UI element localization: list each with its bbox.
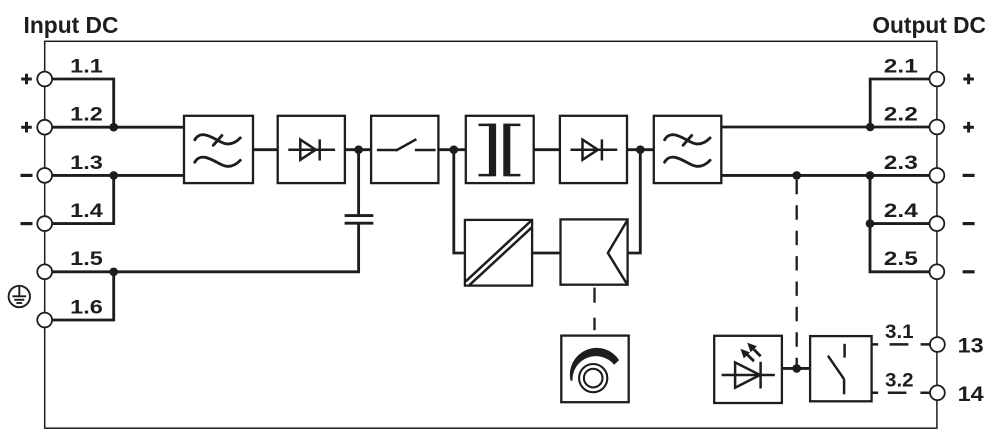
input filter symbol waves <box>195 135 241 167</box>
svg-text:1.1: 1.1 <box>70 55 103 77</box>
terminal 14 <box>930 385 945 400</box>
svg-text:3.1: 3.1 <box>885 321 914 343</box>
wire to terminal 2.4 <box>870 222 930 225</box>
feedback chevron symbol <box>608 221 627 284</box>
transformer winding symbol <box>479 124 521 177</box>
terminal 1.3 <box>37 168 52 183</box>
input filter block U1 <box>184 116 253 183</box>
dashed link relay to terminal 13 <box>872 343 930 346</box>
wire terminal 1.1 down to 1.2 net <box>51 79 114 127</box>
wire terminal 1.4 up to 1.3 net <box>51 175 114 223</box>
terminal 2.4 <box>930 216 945 231</box>
svg-text:3.2: 3.2 <box>885 370 914 392</box>
wire node B down to control block <box>454 150 465 253</box>
dashed link relay to terminal 14 <box>872 392 930 395</box>
wire output filter to terminal 2.3 <box>721 174 930 177</box>
wire rectifier to switch <box>345 148 371 151</box>
junction dot capacitor tap <box>354 145 363 154</box>
junction dot 2.3/2.4 <box>866 171 875 180</box>
svg-text:1.4: 1.4 <box>70 200 103 222</box>
svg-text:2.4: 2.4 <box>884 200 918 222</box>
switch block U3 <box>371 116 438 183</box>
wire control block to feedback block <box>532 252 560 255</box>
potentiometer knob symbol <box>570 348 619 392</box>
LED diode symbol <box>722 362 775 389</box>
polarity sign minus 2.4 <box>963 222 975 225</box>
polarity sign plus 2.2 <box>963 122 974 133</box>
svg-text:13: 13 <box>958 335 984 358</box>
LED indicator block D1 <box>714 336 782 403</box>
svg-text:1.5: 1.5 <box>70 248 103 270</box>
terminal 2.1 <box>930 72 945 87</box>
wire LED block to relay block <box>782 367 810 370</box>
junction dot 2.1/2.2 <box>866 123 875 132</box>
polarity sign plus 2.1 <box>963 74 974 85</box>
terminal 1.4 <box>37 216 52 231</box>
wire input filter to rectifier <box>253 148 278 151</box>
wire output filter to terminal 2.2 <box>721 126 930 129</box>
svg-text:2.2: 2.2 <box>884 104 918 126</box>
junction dot 1.1/1.2 <box>109 123 118 132</box>
wire 1.3 to input filter <box>51 174 184 177</box>
svg-text:1.3: 1.3 <box>70 152 103 174</box>
polarity sign minus 1.3 <box>21 174 33 177</box>
terminal 13 <box>930 337 945 352</box>
switch symbol <box>377 139 436 150</box>
svg-text:14: 14 <box>958 383 984 406</box>
potentiometer block R1 <box>561 336 628 403</box>
svg-text:1.6: 1.6 <box>70 296 103 318</box>
terminal 1.1 <box>37 72 52 87</box>
junction dot 1.5/1.6 <box>109 268 118 277</box>
terminal 2.5 <box>930 264 945 279</box>
wire terminal 1.6 up to 1.5 net <box>51 272 114 320</box>
wire 2.4/2.5 branch <box>870 175 930 271</box>
wire terminal 2.1 down to 2.2 net <box>870 79 930 127</box>
control block stripe symbol <box>466 221 532 285</box>
junction dot 1.3/1.4 <box>109 171 118 180</box>
svg-text:2.1: 2.1 <box>884 55 918 77</box>
feedback block U8 <box>561 219 628 284</box>
rectifier diode symbol <box>288 139 335 160</box>
polarity sign minus 2.3 <box>963 174 975 177</box>
LED light arrows <box>740 343 760 362</box>
svg-text:2.3: 2.3 <box>884 152 918 174</box>
output diode symbol <box>571 139 618 160</box>
wire transformer to output diode <box>534 148 560 151</box>
dashed stub feedback block to potentiometer <box>593 288 595 331</box>
wire 1.5 return rail to capacitor <box>51 224 359 271</box>
wire capacitor upper lead <box>357 150 360 215</box>
polarity sign plus 1.1 <box>21 74 32 85</box>
output filter symbol waves <box>665 135 711 167</box>
polarity sign plus 1.2 <box>21 122 32 133</box>
rectifier block U2 <box>278 116 345 183</box>
capacitor C1 plates <box>345 216 374 224</box>
wire switch to transformer <box>438 148 465 151</box>
terminal 1.5 <box>37 264 52 279</box>
device outline border <box>45 41 937 428</box>
junction dot node B <box>450 145 459 154</box>
dashed signal line down to relay circuit <box>796 180 798 369</box>
ground / protective earth symbol <box>9 286 30 307</box>
terminal 1.6 <box>37 313 52 328</box>
junction dot dashed tap <box>792 171 801 180</box>
transformer block U4 <box>466 116 534 183</box>
relay contact block K1 <box>810 336 872 401</box>
svg-text:Input DC: Input DC <box>24 12 119 38</box>
wire feedback block up to node C <box>628 150 641 253</box>
terminal 2.2 <box>930 120 945 135</box>
control block U7 <box>465 220 532 286</box>
relay contact symbol <box>828 344 845 395</box>
svg-text:Output DC: Output DC <box>872 12 986 38</box>
junction dot 2.4 <box>866 219 875 228</box>
polarity sign minus 1.4 <box>21 222 33 225</box>
wire output diode to output filter <box>627 148 654 151</box>
polarity sign minus 2.5 <box>963 270 975 273</box>
junction dot LED/relay wire <box>792 364 801 373</box>
svg-text:1.2: 1.2 <box>70 104 103 126</box>
output filter block U6 <box>654 116 722 183</box>
wire 1.2 to input filter <box>51 126 184 129</box>
output diode block U5 <box>560 116 627 183</box>
terminal 2.3 <box>930 168 945 183</box>
terminal 1.2 <box>37 120 52 135</box>
svg-text:2.5: 2.5 <box>884 248 918 270</box>
junction dot node C <box>636 145 645 154</box>
